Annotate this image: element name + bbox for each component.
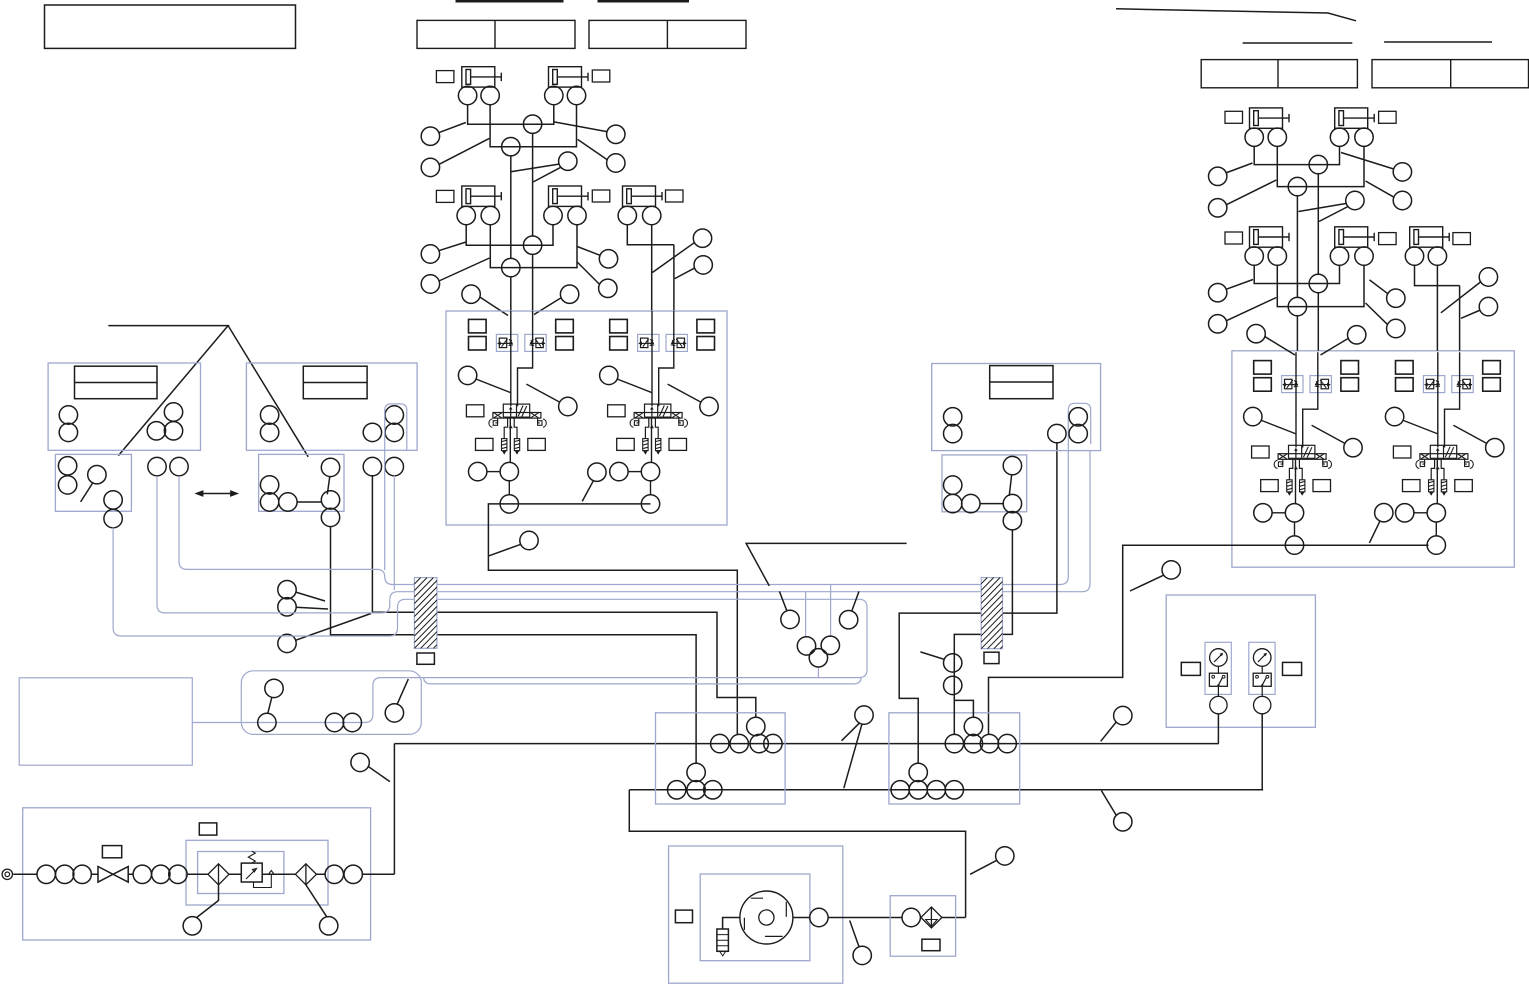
- circle: [147, 422, 165, 440]
- inner box: [700, 874, 810, 961]
- wire rcyl5 trunkA: [1436, 265, 1438, 351]
- port circles: [1245, 247, 1263, 265]
- hose drop g2 pair circle: [393, 475, 395, 590]
- circle: [1355, 247, 1373, 265]
- circle: [58, 476, 76, 494]
- circle: [1268, 128, 1286, 146]
- wire rail1: [1254, 146, 1339, 165]
- group1 box: [48, 363, 200, 450]
- label rect: [666, 190, 684, 202]
- circle: [687, 763, 705, 781]
- cylinder CYL5: [623, 186, 663, 206]
- leader: [578, 139, 608, 160]
- group1 lower box: [55, 454, 131, 511]
- filter check triangle: [926, 920, 938, 927]
- junction J2: [502, 138, 520, 156]
- leader: [675, 268, 695, 279]
- leader: [439, 258, 490, 281]
- callout above box left: [462, 285, 480, 303]
- coupling circles 2: [133, 865, 151, 883]
- callout gauge drop B: [1114, 813, 1132, 831]
- port circle: [545, 86, 563, 104]
- wire trunkR2: [1296, 195, 1298, 298]
- circle: [59, 423, 77, 441]
- circle: [260, 423, 278, 441]
- table 2: [589, 20, 746, 48]
- label rect: [1379, 233, 1397, 245]
- hose from g1 lower circle: [113, 527, 867, 722]
- main line A: [394, 743, 1218, 745]
- regulator spring: [248, 851, 255, 863]
- circle: [1003, 456, 1021, 474]
- leader: [1101, 722, 1117, 742]
- leader: [842, 723, 860, 741]
- leader: [439, 138, 489, 164]
- leader: [582, 480, 593, 501]
- valve box outline: [1232, 351, 1514, 567]
- circle: [260, 406, 278, 424]
- circle: [265, 679, 283, 697]
- label rect: [1379, 111, 1397, 123]
- callout: [421, 158, 439, 176]
- circle: [344, 865, 362, 883]
- filter 1: [208, 864, 229, 885]
- circle: [104, 491, 122, 509]
- circle: [152, 865, 170, 883]
- circle: [385, 406, 403, 424]
- label rect: [592, 190, 610, 202]
- circles on pump hose: [258, 713, 276, 731]
- circle: [945, 781, 963, 799]
- wire rail4: [1277, 265, 1364, 307]
- hose capsule group2: [385, 404, 407, 570]
- callout: [559, 152, 577, 170]
- label rect: [1225, 232, 1243, 244]
- group2 lower box: [259, 454, 344, 511]
- leader: [1366, 303, 1388, 325]
- leader: [1366, 181, 1395, 197]
- circle: [1069, 424, 1087, 442]
- valve column 1: [458, 311, 577, 513]
- callout: [1393, 191, 1411, 209]
- leader: [553, 122, 607, 132]
- leader: [1370, 280, 1388, 294]
- gauges box: [1166, 595, 1315, 727]
- callout bus left2: [278, 598, 296, 616]
- group box: [932, 364, 1101, 451]
- port circle: [567, 86, 585, 104]
- inner box 2: [198, 852, 284, 894]
- leader: [652, 242, 694, 272]
- gauge 2: [1249, 642, 1275, 714]
- label rect: [436, 190, 454, 202]
- gauge 1: [1205, 642, 1231, 714]
- group2 display rect: [303, 366, 367, 399]
- manifold box left: [656, 713, 786, 804]
- wire junction link right box: [989, 545, 1429, 735]
- leader: [779, 591, 787, 611]
- circle: [1355, 128, 1373, 146]
- circle: [998, 734, 1016, 752]
- wire rcyl5 trunkB: [1459, 286, 1461, 351]
- leader: [1226, 163, 1253, 173]
- label rect: [1453, 233, 1471, 245]
- callout mid box: [588, 463, 606, 481]
- regulator arrow: [246, 869, 257, 880]
- leader: [533, 167, 561, 182]
- callout: [1387, 319, 1405, 337]
- wire link: [297, 501, 322, 503]
- leader polyline top right: [1116, 9, 1356, 21]
- leader: [1461, 310, 1480, 318]
- circle: [927, 781, 945, 799]
- wire black drop g2 pair: [372, 475, 755, 718]
- valve column 3: [1244, 352, 1363, 554]
- wire cyl5 trunkA: [651, 224, 653, 311]
- circle: [104, 509, 122, 527]
- callout: [599, 250, 617, 268]
- circle: [88, 466, 106, 484]
- circle: [1069, 408, 1087, 426]
- callout: [694, 256, 712, 274]
- circle: [944, 424, 962, 442]
- circle: [730, 734, 748, 752]
- leader: [1009, 475, 1012, 496]
- callout: [599, 279, 617, 297]
- port circle: [618, 206, 636, 224]
- double arrow: [197, 493, 236, 495]
- leader: [489, 544, 521, 556]
- circle: [747, 717, 765, 735]
- circles: [944, 408, 962, 426]
- port circles: [1245, 128, 1263, 146]
- main pump line: [13, 873, 394, 875]
- circle: [980, 734, 998, 752]
- circle: [909, 781, 927, 799]
- coupling circle: [902, 908, 920, 926]
- hose from g1 circle 157: [157, 450, 1090, 613]
- wire rcyl5 left leg: [1415, 265, 1460, 286]
- display divider: [990, 381, 1053, 383]
- bulkhead right: [981, 578, 1002, 649]
- circle: [809, 649, 827, 667]
- filter diamond: [921, 907, 942, 928]
- wire rail3: [1254, 265, 1339, 284]
- group1 display rect: [75, 366, 158, 399]
- circle: [944, 494, 962, 512]
- port circle: [457, 206, 475, 224]
- leader: [438, 242, 466, 251]
- callout riser: [351, 753, 369, 771]
- filter 2: [295, 864, 316, 885]
- filter 1 drain: [197, 885, 219, 918]
- circle: [764, 734, 782, 752]
- line B loop to compressor: [629, 790, 965, 918]
- callout mid: [1346, 191, 1364, 209]
- circle: [385, 457, 403, 475]
- hose pair circles g1: [148, 457, 166, 475]
- manifold right row circles: [945, 734, 963, 752]
- wire rail1 row2: [466, 224, 553, 245]
- outer box: [669, 846, 843, 983]
- leader: [970, 860, 997, 874]
- gauge drop B: [1261, 714, 1263, 790]
- inner box 1: [186, 840, 328, 905]
- callout: [1209, 199, 1227, 217]
- circle: [385, 423, 403, 441]
- circle: [363, 423, 381, 441]
- circle: [704, 781, 722, 799]
- circle: [325, 713, 343, 731]
- label rect valve: [102, 846, 121, 858]
- leader: [1264, 336, 1295, 355]
- callout: [607, 125, 625, 143]
- wire link: [980, 503, 1004, 505]
- leader: [512, 164, 560, 172]
- manifold left row circles: [711, 734, 729, 752]
- callout: [607, 154, 625, 172]
- callout cluster left: [781, 610, 799, 628]
- callout cluster right: [839, 611, 857, 629]
- gauge label left: [1181, 662, 1200, 675]
- label rect: [675, 910, 692, 923]
- wire right group drop 2: [954, 529, 1012, 735]
- wire step to elevated: [954, 700, 973, 717]
- port circle: [458, 86, 476, 104]
- junction J1: [523, 115, 541, 133]
- callout: [1387, 289, 1405, 307]
- junction J2R: [1288, 177, 1306, 195]
- leader: [1319, 207, 1348, 222]
- circle: [321, 491, 339, 509]
- junction J1R: [1309, 155, 1327, 173]
- main line B: [629, 789, 1263, 791]
- table 4: [1372, 60, 1529, 88]
- valve column 2: [600, 311, 719, 513]
- filter unit box: [890, 896, 955, 957]
- junction J4: [502, 258, 520, 276]
- manifold left lower circles: [668, 781, 686, 799]
- callout: [693, 229, 711, 247]
- circle: [964, 717, 982, 735]
- wire trunk1 upper: [510, 155, 512, 259]
- wire trunk2 upper: [532, 133, 534, 237]
- circle: [1048, 424, 1066, 442]
- coupling circles 3: [325, 865, 343, 883]
- wire trunk2 lower: [532, 254, 534, 311]
- leader: [1101, 791, 1116, 816]
- circle: [962, 494, 980, 512]
- pump connection rounded box: [241, 671, 421, 735]
- callout below right: [1348, 326, 1366, 344]
- circle: [1268, 247, 1286, 265]
- wire cyl5 left leg: [627, 224, 674, 245]
- callout: [853, 946, 871, 964]
- circle below box: [321, 508, 339, 526]
- callout bus left: [278, 581, 296, 599]
- label line to cluster: [746, 543, 907, 586]
- table 3: [1201, 60, 1357, 88]
- leader: [295, 614, 371, 641]
- table underline right-left: [1243, 42, 1353, 44]
- gauge drop A: [1217, 714, 1219, 744]
- circle: [1330, 128, 1348, 146]
- cylinder RCYL1: [1250, 108, 1290, 128]
- leader: [920, 652, 944, 660]
- wire rail2: [1277, 146, 1364, 187]
- leader: [1299, 203, 1347, 211]
- port circle: [481, 86, 499, 104]
- wire rail2 row1: [490, 104, 576, 147]
- table underline left: [456, 0, 564, 3]
- circle: [821, 636, 839, 654]
- bulkhead left label: [417, 653, 435, 664]
- wire trunkR2 low: [1296, 315, 1298, 351]
- label rect: [592, 70, 610, 82]
- cylinder CYL1: [462, 67, 502, 87]
- leader: [327, 476, 330, 494]
- circle: [321, 458, 339, 476]
- port circle: [481, 206, 499, 224]
- triangle pointer: [108, 326, 308, 457]
- callout: [1209, 284, 1227, 302]
- regulator relief: [254, 871, 275, 888]
- port circle: [643, 206, 661, 224]
- output line: [793, 917, 966, 919]
- cylinder CYL4: [549, 186, 589, 206]
- callout hose riser: [385, 704, 403, 722]
- leader: [1226, 298, 1276, 321]
- leader: [296, 607, 328, 609]
- callout compressor riser: [996, 847, 1014, 865]
- pump riser: [393, 744, 395, 875]
- table 1: [417, 20, 575, 48]
- circle: [55, 865, 73, 883]
- left empty box: [19, 678, 192, 765]
- wire trunkR1: [1317, 173, 1319, 274]
- leader: [368, 766, 390, 781]
- callout: [421, 127, 439, 145]
- leader: [438, 123, 465, 133]
- circle: [964, 734, 982, 752]
- wire cyl5 trunkB: [673, 245, 675, 311]
- cylinder CYL2: [549, 67, 589, 87]
- port circle: [544, 206, 562, 224]
- callout filter2: [320, 917, 338, 935]
- cylinder RCYL2: [1335, 108, 1375, 128]
- valve box outline: [446, 311, 727, 525]
- circle: [164, 403, 182, 421]
- circle: [1405, 247, 1423, 265]
- regulator: [241, 863, 262, 882]
- source symbol: [2, 869, 12, 879]
- bulkhead right label: [984, 652, 999, 663]
- hose from g1 circle 179: [179, 403, 1091, 584]
- leader: [1226, 180, 1276, 205]
- callout hatch right pair 2: [944, 676, 962, 694]
- callout: [421, 275, 439, 293]
- circle: [687, 781, 705, 799]
- cylinder CYL3: [462, 186, 502, 206]
- intake muffler: [723, 918, 740, 930]
- circles: [944, 476, 962, 494]
- port circle: [568, 206, 586, 224]
- hose flat loop lower: [424, 678, 861, 684]
- circle: [170, 457, 188, 475]
- leader: [577, 262, 600, 285]
- leader: [1130, 575, 1164, 591]
- leader: [1321, 338, 1349, 355]
- gauge label right: [1283, 662, 1302, 675]
- coupling circle: [810, 908, 828, 926]
- junction J4R: [1288, 297, 1306, 315]
- manifold box right: [889, 713, 1020, 804]
- callout rcyl5 right: [1479, 268, 1497, 286]
- wire right group drop 1: [899, 442, 1057, 763]
- callout below left: [1247, 325, 1265, 343]
- leader: [479, 297, 508, 316]
- callout: [1393, 163, 1411, 181]
- display divider: [75, 382, 158, 384]
- circle: [750, 734, 768, 752]
- coupling circles: [37, 865, 55, 883]
- table underline right: [598, 0, 690, 3]
- filter 2 drain leader: [306, 885, 327, 917]
- cylinder RCYL5: [1410, 227, 1450, 247]
- circle: [1003, 494, 1021, 512]
- group2 box: [246, 363, 417, 450]
- leader: [1341, 153, 1394, 170]
- leader: [844, 724, 862, 789]
- wire trunk1 lower: [510, 276, 512, 311]
- leader: [295, 592, 325, 601]
- circle: [73, 865, 91, 883]
- circle below box: [1003, 512, 1021, 530]
- callout drop: [520, 531, 538, 549]
- leader: [397, 679, 408, 705]
- callout gauge drop A: [1114, 706, 1132, 724]
- cylinder RCYL4: [1335, 227, 1375, 247]
- leader: [1226, 280, 1253, 290]
- lower box: [942, 455, 1027, 512]
- circle: [1330, 247, 1348, 265]
- wire black drop g2 box: [331, 526, 697, 764]
- table underline right-right: [1384, 41, 1492, 43]
- leader: [1369, 521, 1380, 543]
- circle: [58, 457, 76, 475]
- motor circle: [740, 891, 793, 944]
- bulkhead left: [414, 578, 437, 649]
- label rect: [1225, 111, 1243, 123]
- gate valve: [98, 867, 128, 883]
- leader: [268, 697, 272, 714]
- cylinder RCYL3: [1250, 227, 1290, 247]
- filter label: [922, 939, 940, 951]
- leader: [850, 921, 859, 947]
- motor detail lines: [744, 898, 786, 936]
- junction cluster circles: [797, 637, 815, 655]
- callout filter1: [183, 917, 201, 935]
- callout right box lower left: [1162, 561, 1180, 579]
- callout rcyl5 right2: [1479, 297, 1497, 315]
- circle: [279, 493, 297, 511]
- circle: [1428, 247, 1446, 265]
- circle: [343, 713, 361, 731]
- circle: [260, 493, 278, 511]
- title block top-left: [45, 5, 296, 48]
- callout: [1209, 167, 1227, 185]
- leader: [1441, 282, 1481, 313]
